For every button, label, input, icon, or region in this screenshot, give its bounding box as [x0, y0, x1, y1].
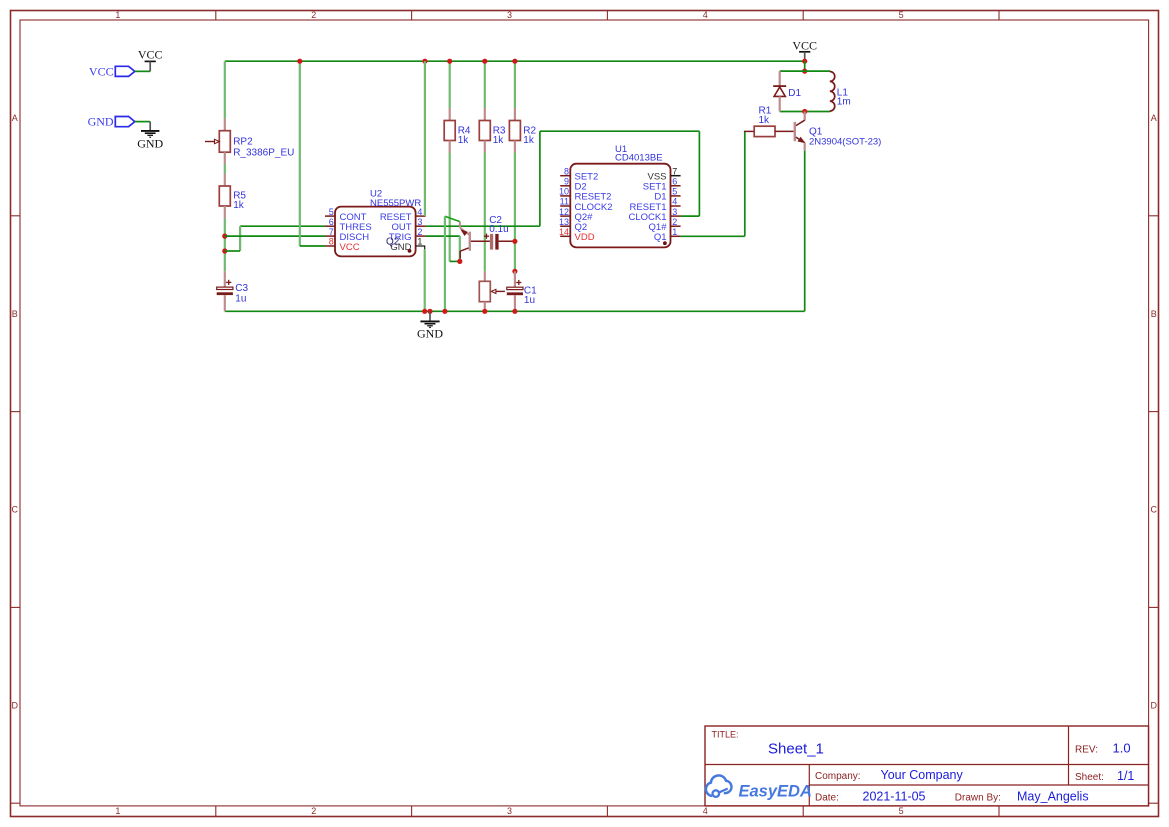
svg-text:NE555PWR: NE555PWR: [370, 198, 421, 209]
svg-text:2N3904(SOT-23): 2N3904(SOT-23): [809, 136, 881, 147]
node junction: [457, 259, 462, 264]
svg-text:1k: 1k: [233, 200, 245, 211]
transistor Q2: [445, 216, 471, 258]
svg-text:1u: 1u: [235, 293, 246, 304]
svg-text:C: C: [1151, 505, 1158, 515]
wire: [484, 61, 486, 108]
potentiometer wiper element: [479, 271, 505, 311]
power flag VCC: [138, 48, 163, 72]
wire: [449, 61, 451, 108]
wire U2 pin1 GND elbow: [416, 246, 425, 311]
svg-text:Sheet:: Sheet:: [1075, 772, 1104, 783]
node junction: [447, 59, 452, 64]
wire snubber loop top: [780, 70, 830, 72]
capacitor C3: [217, 271, 233, 311]
svg-text:VCC: VCC: [792, 38, 817, 52]
svg-text:6: 6: [672, 177, 677, 187]
IC U1 CD4013BE: [560, 164, 680, 248]
pin names U1 left: [575, 172, 613, 244]
svg-text:2021-11-05: 2021-11-05: [863, 790, 926, 804]
svg-text:11: 11: [560, 197, 569, 207]
wire: [224, 219, 226, 272]
transistor Q1: [794, 112, 806, 151]
node junction: [482, 309, 487, 314]
svg-text:D: D: [1151, 701, 1158, 711]
pin 1 marker dot U2: [408, 249, 412, 253]
svg-text:R_3386P_EU: R_3386P_EU: [233, 148, 294, 159]
svg-text:7: 7: [329, 227, 334, 237]
svg-text:D1: D1: [788, 88, 801, 99]
node junction: [482, 59, 487, 64]
pin numbers U2 left: [329, 207, 334, 247]
resistor R4: [444, 108, 455, 153]
node junction: [802, 59, 807, 64]
svg-text:9: 9: [564, 177, 569, 187]
svg-text:1.0: 1.0: [1113, 741, 1131, 756]
wire Q1 emitter to ground rail: [804, 151, 806, 311]
svg-text:EasyEDA: EasyEDA: [739, 782, 812, 800]
potentiometer RP2: [205, 118, 230, 164]
node junction: [422, 59, 427, 64]
svg-text:10: 10: [559, 187, 569, 197]
svg-text:8: 8: [564, 166, 569, 176]
node junction: [222, 234, 227, 239]
node junction: [512, 269, 517, 274]
svg-text:3: 3: [417, 217, 422, 227]
node junction: [297, 59, 302, 64]
svg-text:8: 8: [329, 237, 334, 247]
node junction: [512, 239, 517, 244]
svg-text:1k: 1k: [759, 115, 771, 126]
svg-text:D: D: [12, 701, 19, 711]
node junction: [512, 59, 517, 64]
resistor R1: [744, 126, 794, 136]
svg-text:A: A: [1151, 113, 1157, 123]
svg-text:VDD: VDD: [575, 232, 595, 243]
svg-text:1: 1: [115, 10, 120, 20]
svg-text:B: B: [12, 309, 18, 319]
svg-text:2: 2: [417, 227, 422, 237]
svg-text:C: C: [12, 505, 19, 515]
svg-text:May_Angelis: May_Angelis: [1017, 790, 1089, 804]
svg-text:1: 1: [672, 227, 677, 237]
ground symbol GND (bottom): [417, 311, 443, 340]
port GND: [88, 115, 135, 129]
wire R4 to Q2 collector: [450, 153, 460, 262]
power flag VCC (right): [792, 38, 817, 61]
label C2 0.1u: [489, 215, 508, 235]
label R2 1k: [523, 126, 536, 147]
wire: [804, 61, 806, 71]
svg-text:3: 3: [507, 10, 512, 20]
pin numbers U1 right: [672, 166, 677, 237]
frame row labels: [12, 113, 1158, 710]
wire U1 Q1 to R1: [681, 131, 745, 236]
svg-text:1u: 1u: [524, 295, 535, 306]
wire THRES net: [225, 226, 325, 251]
svg-text:5: 5: [672, 187, 677, 197]
resistor R2: [509, 108, 520, 153]
node junction: [802, 69, 807, 74]
svg-text:4: 4: [417, 207, 422, 217]
label R3 1k: [493, 126, 506, 147]
svg-text:TITLE:: TITLE:: [712, 730, 739, 740]
svg-text:2: 2: [672, 217, 677, 227]
wire: [135, 121, 150, 123]
svg-text:5: 5: [899, 806, 904, 816]
label R4 1k: [458, 126, 471, 147]
svg-text:VCC: VCC: [340, 242, 360, 253]
svg-text:1: 1: [417, 237, 422, 247]
svg-text:0.1u: 0.1u: [489, 224, 508, 235]
wire GND rail: [225, 310, 805, 312]
svg-text:REV:: REV:: [1075, 745, 1098, 756]
node junction: [222, 248, 227, 253]
svg-text:7: 7: [672, 166, 677, 176]
svg-text:1k: 1k: [458, 135, 470, 146]
EasyEDA logo: [706, 775, 812, 800]
svg-text:4: 4: [703, 806, 708, 816]
resistor R5: [219, 174, 230, 219]
wire TRIG net: [426, 236, 460, 261]
inductor L1: [830, 72, 835, 112]
svg-text:1k: 1k: [523, 135, 535, 146]
svg-text:1m: 1m: [837, 97, 851, 108]
port VCC: [89, 64, 135, 78]
svg-text:5: 5: [329, 207, 334, 217]
svg-text:GND: GND: [137, 136, 163, 150]
svg-text:Drawn By:: Drawn By:: [955, 793, 1001, 804]
node junction: [802, 109, 807, 114]
frame column labels: [115, 10, 903, 816]
svg-text:6: 6: [329, 217, 334, 227]
title block text: [712, 730, 1135, 804]
label U1 CD4013BE: [615, 144, 663, 164]
diode D1: [773, 71, 786, 111]
svg-text:Q2: Q2: [386, 236, 400, 247]
svg-text:3: 3: [507, 806, 512, 816]
node junction: [512, 309, 517, 314]
wire: [224, 164, 226, 174]
op-amp timer U2 NE555PWR: [325, 207, 426, 257]
svg-text:GND: GND: [417, 327, 443, 341]
svg-text:4: 4: [703, 10, 708, 20]
capacitor C2: [471, 234, 515, 250]
pin numbers U1 left: [559, 166, 569, 237]
svg-text:4: 4: [672, 197, 677, 207]
svg-text:13: 13: [559, 217, 569, 227]
svg-text:Sheet_1: Sheet_1: [768, 741, 824, 758]
pin 1 marker dot U1: [663, 241, 667, 245]
svg-text:VCC: VCC: [138, 48, 163, 62]
svg-text:2: 2: [311, 806, 316, 816]
wire snubber loop bottom: [780, 111, 830, 113]
svg-text:3: 3: [672, 207, 677, 217]
wire RESET net: [424, 61, 426, 216]
svg-text:5: 5: [899, 10, 904, 20]
svg-text:CD4013BE: CD4013BE: [615, 152, 663, 163]
svg-text:2: 2: [311, 10, 316, 20]
svg-text:Your Company: Your Company: [881, 768, 964, 782]
svg-text:Date:: Date:: [815, 793, 839, 804]
svg-text:Company:: Company:: [815, 771, 861, 782]
pin names U1 right: [628, 172, 667, 244]
svg-text:B: B: [1151, 309, 1157, 319]
svg-text:A: A: [12, 113, 18, 123]
label L1 1m: [837, 87, 851, 107]
wire DISCH net: [225, 235, 325, 237]
capacitor C1: [507, 271, 523, 311]
wire: [135, 70, 150, 72]
wire: [514, 61, 516, 108]
svg-text:GND: GND: [88, 115, 114, 129]
wire emitter to ground: [444, 216, 446, 311]
node junction: [442, 309, 447, 314]
svg-text:1/1: 1/1: [1117, 769, 1134, 783]
pin names U2: [340, 212, 412, 253]
wire R2 down: [514, 153, 516, 272]
label R1 1k: [759, 106, 772, 127]
label U2 NE555PWR: [370, 188, 421, 209]
svg-text:1: 1: [115, 806, 120, 816]
resistor R3: [479, 108, 490, 153]
svg-text:RP2: RP2: [233, 137, 253, 148]
node junction: [422, 309, 427, 314]
label RP2: [233, 137, 294, 159]
wire VCC to U2: [300, 61, 325, 246]
svg-text:1k: 1k: [493, 135, 505, 146]
label Q1 2N3904: [809, 127, 881, 148]
wire VCC bus: [225, 60, 805, 62]
wire R3 down: [484, 153, 486, 272]
wire OUT net: [426, 131, 700, 226]
pin numbers U2 right: [417, 207, 422, 247]
label R5 1k: [233, 191, 246, 211]
svg-text:VCC: VCC: [89, 64, 114, 78]
svg-text:12: 12: [559, 207, 569, 217]
title block: [705, 726, 1149, 806]
wire: [224, 61, 226, 118]
svg-text:14: 14: [559, 227, 569, 237]
node junction: [427, 309, 432, 314]
ground symbol GND (left): [137, 122, 163, 151]
